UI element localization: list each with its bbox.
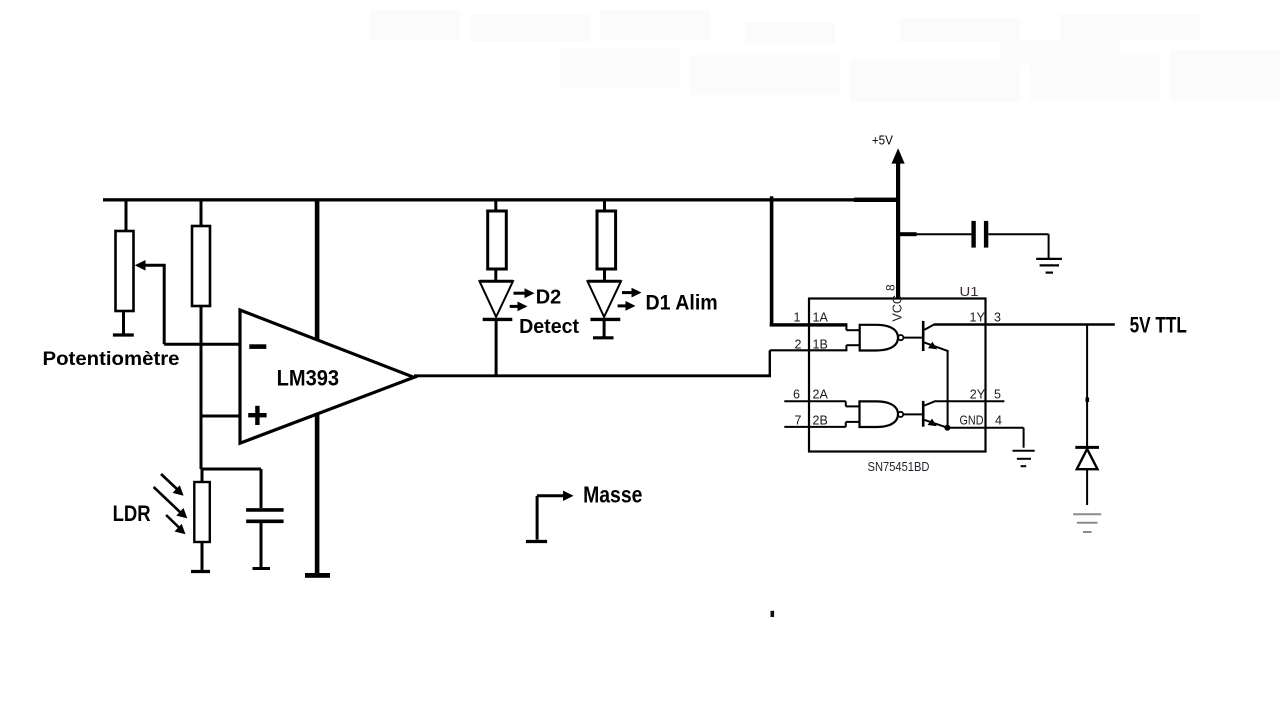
ground (C2) <box>1036 259 1062 273</box>
wire top +5V rail <box>103 198 900 202</box>
svg-text:1Y: 1Y <box>970 311 986 325</box>
svg-text:Detect: Detect <box>519 316 579 338</box>
resistor R3 (D2 branch) <box>488 199 507 281</box>
svg-text:1: 1 <box>794 311 801 325</box>
svg-text:VCC: VCC <box>891 295 905 321</box>
junction node (emitters/GND) <box>944 425 950 431</box>
wire +5V vertical VCC <box>896 163 900 300</box>
LDR light arrows <box>154 474 188 534</box>
svg-text:D2: D2 <box>536 286 562 308</box>
svg-text:2: 2 <box>795 338 802 352</box>
svg-text:7: 7 <box>795 414 802 428</box>
ground Masse symbol <box>526 491 574 542</box>
NAND gate U1B <box>860 401 922 427</box>
wire pot wiper to inverting input <box>135 260 240 344</box>
plus input symbol <box>248 406 266 425</box>
svg-text:SN75451BD: SN75451BD <box>868 459 930 474</box>
svg-text:8: 8 <box>884 284 898 291</box>
wire GND pin 4 <box>947 428 1023 448</box>
svg-text:2B: 2B <box>813 414 828 428</box>
wire junction R2/LDR/C1 <box>201 468 261 471</box>
diode D3 <box>1075 447 1099 505</box>
LDR R5 <box>191 469 210 572</box>
svg-text:6: 6 <box>793 388 800 402</box>
svg-text:1B: 1B <box>813 338 828 352</box>
ground (diode, gray) <box>1073 514 1101 532</box>
resistor R4 (D1 branch) <box>597 199 616 281</box>
IC U1 box <box>809 299 986 452</box>
svg-text:1A: 1A <box>813 311 829 325</box>
LED D2 <box>480 281 514 376</box>
svg-text:Masse: Masse <box>583 481 642 507</box>
power +5V arrow <box>892 148 905 163</box>
op-amp U2 LM393 <box>240 310 414 443</box>
svg-text:+5V: +5V <box>872 133 893 148</box>
svg-text:2Y: 2Y <box>970 388 986 402</box>
svg-text:2A: 2A <box>813 388 829 402</box>
transistor Q1 <box>922 321 965 428</box>
resistor R2 <box>192 199 210 469</box>
LED D2 arrows <box>510 288 535 311</box>
svg-text:Potentiomètre: Potentiomètre <box>43 349 180 370</box>
svg-text:5V TTL: 5V TTL <box>1130 313 1187 338</box>
svg-text:GND: GND <box>960 414 984 428</box>
wire LM393 output to IC <box>414 350 847 376</box>
wire to diode D3 <box>1086 325 1088 447</box>
pin labels gate 2 <box>793 388 1002 428</box>
transistor Q2 <box>922 401 1005 428</box>
wire non-inverting input <box>201 415 240 418</box>
capacitor C2 <box>974 221 1049 258</box>
LED D1 arrows <box>618 288 642 311</box>
svg-text:LM393: LM393 <box>277 365 340 390</box>
svg-text:3: 3 <box>994 311 1001 325</box>
wire pins 6/7 stubs <box>784 401 859 427</box>
svg-text:4: 4 <box>995 414 1002 428</box>
minus input symbol <box>249 344 266 349</box>
ground thick vertical rail with bar <box>305 199 330 578</box>
svg-text:D1 Alim: D1 Alim <box>646 292 718 315</box>
LED D1 <box>588 281 622 338</box>
svg-text:LDR: LDR <box>113 501 151 526</box>
svg-text:5: 5 <box>994 388 1001 402</box>
node tick on diode wire <box>1086 398 1090 402</box>
wire 1Y output / 5V TTL <box>934 323 1115 325</box>
pin labels gate 1 <box>794 311 1002 352</box>
potentiometer P1 <box>113 199 134 335</box>
ground (pin 4) <box>1013 451 1035 467</box>
NAND gate U1A <box>860 325 922 351</box>
capacitor C1 <box>246 469 284 569</box>
stray mark <box>771 611 775 617</box>
wire rail to pin 1 (thick) <box>770 196 848 326</box>
wire pin2 jog into gate1 <box>846 325 859 350</box>
svg-text:U1: U1 <box>960 284 979 299</box>
wire VCC to C2 <box>897 232 971 236</box>
faint smudge bands (decorative) <box>370 10 1280 102</box>
